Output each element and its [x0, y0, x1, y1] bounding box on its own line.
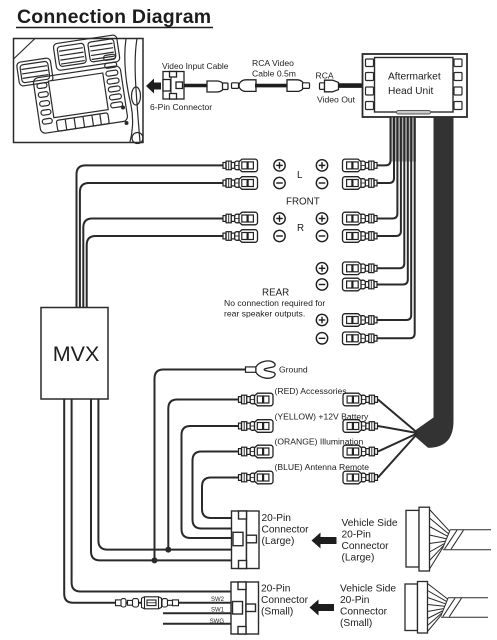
svg-text:(Small): (Small): [261, 607, 293, 618]
connector: orange right: [343, 445, 378, 458]
connector: front L- right: [343, 177, 378, 190]
wire: MVX to front R+: [83, 219, 222, 308]
RCA plug on video input cable: [207, 81, 228, 92]
wire: MVX to large connector 1: [98, 399, 231, 550]
wire: yellow battery left: [182, 426, 239, 538]
svg-text:MVX: MVX: [53, 342, 100, 366]
svg-text:20-Pin: 20-Pin: [342, 530, 371, 541]
wire: MVX to small connector 1: [72, 399, 231, 592]
svg-text:FRONT: FRONT: [286, 197, 320, 208]
svg-text:Ground: Ground: [279, 365, 308, 375]
svg-text:6-Pin Connector: 6-Pin Connector: [150, 102, 212, 112]
arrow into dashboard: [146, 79, 161, 94]
connector: front L- left: [223, 177, 258, 190]
svg-text:20-Pin: 20-Pin: [261, 584, 290, 595]
arrow: vehicle to small connector: [310, 600, 335, 616]
console outline: [33, 65, 128, 133]
svg-text:20-Pin: 20-Pin: [340, 595, 369, 606]
left vent: [16, 58, 53, 87]
connector: blue left: [239, 471, 274, 484]
wire: front R+ to head unit: [378, 118, 398, 219]
wire: fan to (YELLOW): [378, 426, 417, 433]
aftermarket head unit: [363, 54, 468, 117]
connector: front L+ left: [223, 159, 258, 172]
left pill stack: [37, 82, 48, 88]
wire: MVX to front L-: [80, 183, 223, 308]
20-pin connector small: [231, 582, 259, 634]
connector: orange left: [239, 445, 274, 458]
svg-text:RCA: RCA: [316, 71, 334, 81]
connector: front R- right: [343, 230, 378, 243]
connector: yellow left: [239, 420, 274, 433]
svg-text:rear speaker outputs.: rear speaker outputs.: [224, 309, 305, 319]
polarity symbols rear: [316, 263, 327, 344]
wire: MVX to front R-: [87, 236, 223, 308]
RCA video out plug: [320, 80, 364, 92]
wire: fan to (ORANGE): [378, 434, 417, 452]
svg-text:Connection Diagram: Connection Diagram: [17, 6, 211, 28]
screen: [48, 73, 108, 118]
svg-text:No connection required for: No connection required for: [224, 298, 325, 308]
connector: yellow right: [343, 420, 378, 433]
wire: SW1: [163, 612, 231, 614]
svg-text:Vehicle Side: Vehicle Side: [342, 518, 398, 529]
svg-text:Video Out: Video Out: [317, 95, 356, 105]
wire: rear L+ to head unit: [378, 118, 405, 269]
svg-text:(Large): (Large): [342, 553, 375, 564]
6-pin connector: [163, 72, 184, 100]
wire: MVX to front L+: [77, 165, 223, 307]
svg-text:(BLUE) Antenna Remote: (BLUE) Antenna Remote: [275, 462, 370, 472]
wire: MVX to large connector 2: [91, 399, 232, 560]
wire: SWG: [163, 623, 231, 625]
svg-text:R: R: [297, 223, 304, 234]
svg-text:REAR: REAR: [262, 288, 289, 299]
wire: fan to (RED): [378, 400, 417, 433]
car body curves at right: [125, 39, 133, 143]
svg-text:(Large): (Large): [262, 536, 295, 547]
arrow: vehicle to large connector: [312, 533, 337, 549]
svg-text:L: L: [297, 170, 303, 181]
connector: front R+ right: [343, 212, 378, 225]
wire: orange illumination left: [193, 452, 239, 529]
thick power harness cable: [415, 118, 454, 448]
svg-text:Cable 0.5m: Cable 0.5m: [252, 69, 296, 79]
right pill stack: [103, 54, 116, 61]
connector: blue right: [343, 471, 378, 484]
svg-text:SW1: SW1: [211, 608, 225, 614]
wire: fan to (BLUE): [378, 434, 417, 478]
wire: blue antenna left: [202, 478, 238, 519]
svg-text:SW2: SW2: [211, 597, 225, 603]
svg-text:(RED) Accessories: (RED) Accessories: [275, 386, 347, 396]
connector: red left: [239, 393, 274, 406]
svg-text:Aftermarket: Aftermarket: [388, 72, 441, 83]
connector: front R- left: [223, 230, 258, 243]
wire: red accessories left: [168, 400, 238, 550]
top vent pair: [53, 35, 120, 71]
connector: front R+ left: [223, 212, 258, 225]
wire: video input cable lead: [184, 84, 207, 88]
fuse on SW2 wire: [116, 597, 179, 609]
connector: rear L+ right: [343, 262, 378, 275]
ground terminal: [155, 361, 276, 560]
connector: rear R+ right: [343, 314, 378, 327]
MVX unit: [41, 308, 108, 400]
polarity symbols front: [274, 160, 328, 242]
svg-text:(Small): (Small): [340, 618, 372, 629]
wire: front R- to head unit: [378, 118, 401, 237]
connector: rear R- right: [343, 332, 378, 345]
svg-text:Connector: Connector: [342, 541, 390, 552]
wire: front L- to head unit: [378, 118, 395, 184]
svg-text:Connector: Connector: [340, 607, 388, 618]
vehicle side small connector: [405, 582, 428, 634]
20-pin connector large: [232, 511, 260, 569]
title: Connection Diagram: [16, 6, 213, 28]
vehicle side large connector: [406, 507, 430, 571]
car dashboard illustration: [14, 35, 144, 144]
wire: rear R+ to head unit: [378, 118, 412, 321]
connector: red right: [343, 393, 378, 406]
svg-text:Vehicle Side: Vehicle Side: [340, 584, 396, 595]
connector: front L+ right: [343, 159, 378, 172]
svg-text:Head Unit: Head Unit: [388, 86, 433, 97]
svg-text:RCA Video: RCA Video: [252, 58, 294, 68]
svg-text:SWG: SWG: [210, 619, 225, 625]
svg-text:Connector: Connector: [261, 595, 309, 606]
wire: rear L- to head unit: [378, 118, 408, 285]
speaker wire ribbon below head unit: [378, 118, 417, 339]
bottom button row: [56, 113, 109, 132]
svg-text:Video Input Cable: Video Input Cable: [162, 61, 229, 71]
RCA cable 0.5m: [232, 80, 310, 92]
wire: MVX to small connector 2 (fused): [64, 399, 231, 603]
svg-text:Connector: Connector: [262, 525, 310, 536]
wire: rear R- to head unit: [378, 118, 415, 339]
connector: rear L- right: [343, 278, 378, 291]
svg-text:20-Pin: 20-Pin: [262, 513, 291, 524]
junction: red to wire1: [165, 547, 171, 553]
junction: ground to wire2: [152, 557, 158, 563]
wire: front L+ to head unit: [378, 118, 391, 166]
